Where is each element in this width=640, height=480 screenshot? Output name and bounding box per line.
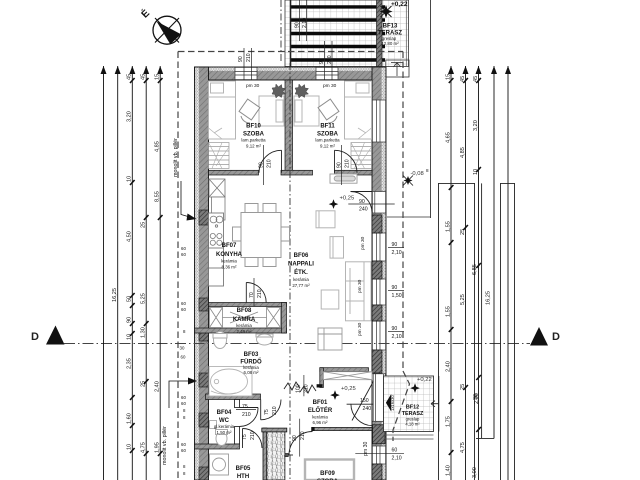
- interior dim window W1: [238, 48, 252, 80]
- svg-text:75: 75: [264, 409, 270, 415]
- building top wall: [195, 67, 386, 80]
- kitchen tall cabinet: [209, 179, 225, 220]
- svg-text:240: 240: [359, 207, 368, 213]
- svg-text:kerámia: kerámia: [312, 415, 328, 420]
- svg-text:60: 60: [392, 448, 398, 454]
- svg-text:2,49 m²: 2,49 m²: [237, 329, 252, 334]
- svg-text:60: 60: [181, 301, 186, 306]
- plot boundary dashed right: [402, 52, 404, 372]
- svg-text:90: 90: [337, 162, 343, 168]
- right dim arrow tops: [448, 66, 511, 74]
- svg-text:1,75: 1,75: [446, 416, 452, 427]
- BF11 plant: [295, 84, 309, 98]
- svg-text:90: 90: [392, 326, 398, 332]
- svg-text:kerámia: kerámia: [236, 323, 252, 328]
- right box3: [501, 183, 515, 480]
- svg-text:2,40: 2,40: [446, 361, 452, 372]
- svg-text:D: D: [552, 331, 560, 343]
- TV bench: [330, 174, 357, 183]
- svg-text:60: 60: [181, 401, 186, 406]
- left dimension chain lines: [104, 66, 161, 480]
- BF12 terrace: [384, 376, 434, 432]
- interior dim terrace upper: [295, 0, 309, 41]
- right wall window BF09: [372, 446, 386, 464]
- interior dim hth door: [242, 431, 256, 440]
- svg-text:BF06: BF06: [294, 253, 309, 259]
- svg-text:5,25: 5,25: [140, 293, 146, 304]
- svg-text:10: 10: [127, 444, 133, 450]
- BF09 top wall: [312, 427, 372, 430]
- entrance arrow: [386, 394, 391, 412]
- svg-text:2,35: 2,35: [127, 358, 133, 369]
- bedroom bottom wall seg2: [281, 170, 313, 175]
- svg-text:9,12 m²: 9,12 m²: [246, 144, 261, 149]
- svg-text:75: 75: [242, 434, 248, 440]
- BF09 bed: [305, 460, 354, 480]
- wc basin: [210, 421, 217, 429]
- kamra shelves: [210, 308, 281, 328]
- svg-text:240: 240: [363, 406, 372, 412]
- sill extension line: [387, 216, 431, 218]
- svg-text:45: 45: [460, 76, 466, 82]
- terrace right inner edge: [405, 0, 407, 67]
- right dim ticks: [449, 78, 481, 455]
- bathtub: [209, 367, 252, 397]
- axis dash-dot vertical terrace: [280, 0, 282, 63]
- leader arrow lower: [169, 381, 188, 408]
- svg-text:75: 75: [242, 404, 248, 410]
- section line D-D: [64, 343, 530, 345]
- interior dim BF10 door: [259, 145, 273, 185]
- svg-text:4,50: 4,50: [127, 231, 133, 242]
- passage break squiggle: [284, 382, 316, 393]
- svg-text:16,25: 16,25: [112, 288, 118, 302]
- svg-text:25: 25: [460, 229, 466, 235]
- right dim labels: [446, 74, 492, 478]
- svg-text:2,10: 2,10: [392, 250, 402, 256]
- kamra door arc: [246, 283, 266, 303]
- svg-text:27,77 m²: 27,77 m²: [292, 283, 310, 288]
- right wall entrance door opening: [373, 374, 386, 422]
- right dimension chain lines: [451, 66, 508, 480]
- svg-text:8: 8: [426, 168, 429, 173]
- window W2 top wall BF11 terrace door: [316, 67, 338, 80]
- bathroom door arc: [261, 400, 281, 420]
- svg-text:kerámia: kerámia: [221, 259, 237, 264]
- svg-text:BF10: BF10: [246, 124, 261, 130]
- right wall window living 1: [372, 233, 386, 261]
- BF11 chair: [318, 99, 339, 123]
- svg-text:pm 30: pm 30: [357, 322, 363, 336]
- svg-text:1,40: 1,40: [446, 465, 452, 476]
- interior dim window W2: [319, 41, 333, 80]
- svg-text:+0,25: +0,25: [340, 196, 355, 202]
- svg-text:60: 60: [181, 252, 186, 257]
- svg-text:4,75: 4,75: [140, 442, 146, 453]
- wc right wall: [235, 400, 240, 408]
- bedroom bottom wall seg1: [209, 170, 259, 175]
- interior dim wc door: [236, 404, 256, 418]
- svg-text:45: 45: [473, 76, 479, 82]
- level star foyer: [330, 390, 340, 400]
- svg-text:4,85: 4,85: [460, 147, 466, 158]
- BF11 bed: [345, 81, 372, 139]
- svg-text:pm 30: pm 30: [357, 279, 363, 293]
- svg-text:NAPPALI: NAPPALI: [288, 262, 314, 268]
- svg-text:8,55: 8,55: [154, 191, 160, 202]
- svg-text:90: 90: [319, 58, 325, 64]
- svg-text:9,12 m²: 9,12 m²: [320, 144, 335, 149]
- kitchen stove: [210, 233, 222, 245]
- svg-text:BF01: BF01: [313, 400, 328, 406]
- svg-text:3,00: 3,00: [472, 467, 478, 478]
- svg-text:2,10: 2,10: [302, 18, 308, 28]
- hth washer: [210, 454, 229, 475]
- svg-text:210: 210: [250, 431, 256, 440]
- right box2: [476, 183, 494, 438]
- level star BF12: [410, 383, 420, 393]
- terrace left edge beam line: [290, 0, 292, 67]
- terrace pier column: [377, 0, 383, 67]
- coffee table living: [321, 290, 339, 309]
- svg-text:100: 100: [296, 384, 302, 393]
- svg-text:60: 60: [181, 395, 186, 400]
- wc toilet: [216, 430, 228, 446]
- svg-text:5,25: 5,25: [460, 294, 466, 305]
- interior dim BF11 door: [337, 145, 351, 185]
- BF10 wardrobe: [209, 143, 230, 169]
- section marker D left: [31, 326, 65, 345]
- svg-text:monolit vb. pillér: monolit vb. pillér: [173, 138, 179, 177]
- svg-text:12,80 m²: 12,80 m²: [381, 41, 399, 46]
- svg-text:90: 90: [295, 22, 301, 28]
- svg-text:16,25: 16,25: [486, 291, 492, 305]
- BF12 edge band + entry arrow: [431, 376, 439, 432]
- svg-text:BF04: BF04: [217, 410, 232, 416]
- svg-text:60: 60: [181, 355, 186, 360]
- svg-text:3,20: 3,20: [473, 120, 479, 131]
- svg-text:ELŐTÉR: ELŐTÉR: [308, 406, 333, 414]
- svg-text:lam.parketta: lam.parketta: [315, 138, 340, 143]
- svg-text:2,10: 2,10: [392, 456, 402, 462]
- svg-text:25: 25: [140, 381, 146, 387]
- monolit vb piller label upper: [173, 138, 179, 177]
- right wall window living 2: [372, 279, 386, 305]
- svg-text:210: 210: [345, 159, 351, 168]
- kitchen counter: [209, 213, 224, 286]
- svg-text:50: 50: [127, 296, 133, 302]
- interior dim bath door: [264, 406, 278, 415]
- svg-text:90: 90: [392, 242, 398, 248]
- svg-text:60: 60: [181, 442, 186, 447]
- svg-text:10: 10: [127, 334, 133, 340]
- svg-text:BF07: BF07: [222, 243, 237, 249]
- svg-text:2,00: 2,00: [474, 393, 480, 404]
- svg-text:gl.kerámia: gl.kerámia: [214, 424, 235, 429]
- wc door arc: [240, 408, 259, 427]
- level star top: [380, 5, 393, 18]
- right wall window BF11: [372, 100, 386, 142]
- plot boundary diagonal at BF12: [393, 371, 410, 441]
- closet shaft scribble: [267, 432, 285, 480]
- svg-text:KONYHA: KONYHA: [216, 252, 243, 258]
- svg-text:4,18 m²: 4,18 m²: [405, 422, 420, 427]
- BF10 bed: [209, 81, 236, 139]
- interior dim terrace door right: [348, 199, 394, 213]
- room labels: [214, 24, 424, 480]
- BF11 door arc: [335, 150, 358, 173]
- svg-text:8,36 m²: 8,36 m²: [222, 265, 237, 270]
- svg-text:BF05: BF05: [236, 466, 251, 472]
- plot boundary dashed top: [178, 51, 403, 53]
- svg-text:kerámia: kerámia: [293, 277, 309, 282]
- svg-text:ÉTK.: ÉTK.: [294, 268, 308, 276]
- svg-text:210: 210: [327, 55, 333, 64]
- svg-text:210: 210: [304, 384, 310, 393]
- interior dim BF09 door: [292, 419, 306, 457]
- corridor wall near closet vertical: [263, 428, 267, 480]
- svg-text:45: 45: [140, 74, 146, 80]
- svg-text:150: 150: [360, 398, 369, 404]
- foyer top wall: [317, 368, 369, 388]
- sofa: [346, 262, 372, 321]
- svg-text:1,50 m²: 1,50 m²: [217, 430, 232, 435]
- svg-text:1,55: 1,55: [446, 306, 452, 317]
- svg-text:210: 210: [300, 431, 306, 440]
- svg-text:1x16x30: 1x16x30: [390, 394, 395, 411]
- svg-text:pm 30: pm 30: [363, 441, 369, 456]
- north arrow: [138, 6, 181, 44]
- svg-text:1,95: 1,95: [154, 442, 160, 453]
- svg-text:90: 90: [359, 199, 365, 205]
- svg-text:6,85: 6,85: [472, 264, 478, 275]
- leader arrow upper: [181, 181, 188, 217]
- BF11 wardrobe: [351, 143, 372, 169]
- svg-text:45: 45: [127, 74, 133, 80]
- svg-text:25: 25: [460, 384, 466, 390]
- svg-text:25: 25: [140, 222, 146, 228]
- entrance door arc: [347, 382, 374, 426]
- svg-text:60: 60: [181, 246, 186, 251]
- svg-text:90: 90: [127, 317, 133, 323]
- dim BF09 window: [355, 441, 404, 461]
- foyer bench: [318, 328, 342, 350]
- svg-text:210: 210: [246, 53, 252, 62]
- left wall piers: [199, 210, 209, 480]
- terrace step box top right: [386, 60, 409, 77]
- bathroom toilet: [213, 332, 227, 349]
- axis dash-dot vertical building: [289, 63, 291, 480]
- pm 30 right wall labels: [357, 236, 366, 336]
- foyer wardrobe: [323, 372, 372, 380]
- level star living: [329, 199, 339, 209]
- svg-text:2,10: 2,10: [392, 334, 402, 340]
- svg-text:BF08: BF08: [237, 308, 252, 314]
- BF10 door arc: [259, 150, 282, 173]
- svg-text:1,60: 1,60: [127, 413, 133, 424]
- right wall terrace door opening: [372, 192, 386, 214]
- svg-text:60: 60: [181, 307, 186, 312]
- svg-text:6,08 m²: 6,08 m²: [244, 370, 259, 375]
- terrace BF13 pergola beams: [290, 7, 385, 60]
- svg-text:+0,22: +0,22: [391, 1, 408, 8]
- svg-text:90: 90: [392, 285, 398, 291]
- terrace door arc living: [351, 192, 373, 214]
- svg-text:6,96 m²: 6,96 m²: [313, 420, 328, 425]
- plot boundary dashed left: [177, 52, 179, 480]
- svg-text:4,85: 4,85: [154, 141, 160, 152]
- section marker D right: [530, 327, 560, 346]
- monolit vb piller label lower: [162, 426, 168, 465]
- armchair 2: [330, 237, 344, 259]
- interior dim passage 100: [296, 375, 310, 396]
- svg-text:BF03: BF03: [244, 352, 259, 358]
- kamra bottom wall: [195, 328, 287, 333]
- BF10 desk: [259, 96, 284, 126]
- svg-text:+0,22: +0,22: [417, 377, 432, 383]
- svg-text:+0,25: +0,25: [341, 386, 356, 392]
- svg-text:3,20: 3,20: [127, 111, 133, 122]
- terrace BF13 floor tiles: [285, 0, 409, 67]
- right wall window dim labels: [360, 242, 404, 412]
- svg-text:D: D: [31, 331, 39, 343]
- svg-text:15: 15: [446, 74, 452, 80]
- right wall piers dark: [372, 215, 385, 480]
- bathroom bottom wall: [206, 394, 261, 400]
- closet top wall: [262, 428, 287, 432]
- svg-text:70: 70: [249, 292, 255, 298]
- svg-text:BF11: BF11: [320, 124, 335, 130]
- BF10 chair: [239, 99, 260, 123]
- stairs BF12: [384, 435, 434, 439]
- svg-text:lam.parketta: lam.parketta: [241, 138, 266, 143]
- BF10 plant: [272, 84, 286, 98]
- svg-text:BF09: BF09: [320, 471, 335, 477]
- kamra top wall: [209, 303, 287, 307]
- svg-text:60: 60: [181, 448, 186, 453]
- pm 30 labels bedrooms: [246, 83, 337, 89]
- svg-text:15: 15: [154, 74, 160, 80]
- svg-text:BF12: BF12: [406, 405, 419, 411]
- left wall: [195, 67, 209, 480]
- window W1 top wall BF10: [235, 67, 257, 80]
- armchair 1: [316, 211, 335, 228]
- bedroom bottom wall seg3: [335, 170, 373, 175]
- BF09 door arc: [288, 432, 312, 456]
- svg-text:4,75: 4,75: [460, 442, 466, 453]
- right box1: [439, 183, 475, 480]
- line right of terrace: [430, 0, 432, 218]
- svg-text:210: 210: [272, 406, 278, 415]
- svg-text:10: 10: [473, 169, 479, 175]
- kitchen sink: [210, 216, 223, 227]
- svg-text:HTH: HTH: [237, 474, 249, 480]
- svg-text:1,30: 1,30: [140, 327, 146, 338]
- svg-text:90: 90: [259, 162, 265, 168]
- svg-text:90: 90: [238, 56, 244, 62]
- svg-text:2,40: 2,40: [154, 381, 160, 392]
- svg-text:30: 30: [180, 346, 185, 351]
- svg-text:pm 30: pm 30: [246, 83, 260, 89]
- corridor end wall: [285, 453, 288, 456]
- hth door arc: [243, 429, 263, 449]
- left dim arrow tops: [101, 66, 164, 74]
- interior dim kamra door: [249, 278, 263, 306]
- svg-text:pm 30: pm 30: [360, 236, 366, 250]
- left dim labels: [112, 74, 160, 453]
- svg-text:210: 210: [257, 289, 263, 298]
- kamra right wall: [282, 303, 287, 334]
- small 8 8 labels left: [180, 246, 187, 476]
- svg-text:BF13: BF13: [383, 24, 398, 30]
- left dim tick marks: [130, 78, 163, 456]
- dining table: [233, 204, 290, 267]
- BF11 desk: [294, 96, 319, 126]
- svg-text:210: 210: [242, 412, 251, 418]
- bathroom washbasin: [256, 334, 273, 345]
- svg-text:pm 30: pm 30: [323, 83, 337, 89]
- svg-text:monolit vb. pillér: monolit vb. pillér: [162, 426, 168, 465]
- bedroom partition wall: [285, 80, 293, 174]
- svg-text:210: 210: [267, 159, 273, 168]
- right wall: [372, 67, 386, 480]
- svg-text:1,50: 1,50: [392, 293, 402, 299]
- wc bottom wall: [195, 444, 240, 449]
- svg-text:1,55: 1,55: [446, 221, 452, 232]
- svg-text:10: 10: [127, 176, 133, 182]
- right wall window foyer: [372, 321, 386, 350]
- svg-text:4,65: 4,65: [446, 132, 452, 143]
- svg-text:90: 90: [292, 435, 298, 441]
